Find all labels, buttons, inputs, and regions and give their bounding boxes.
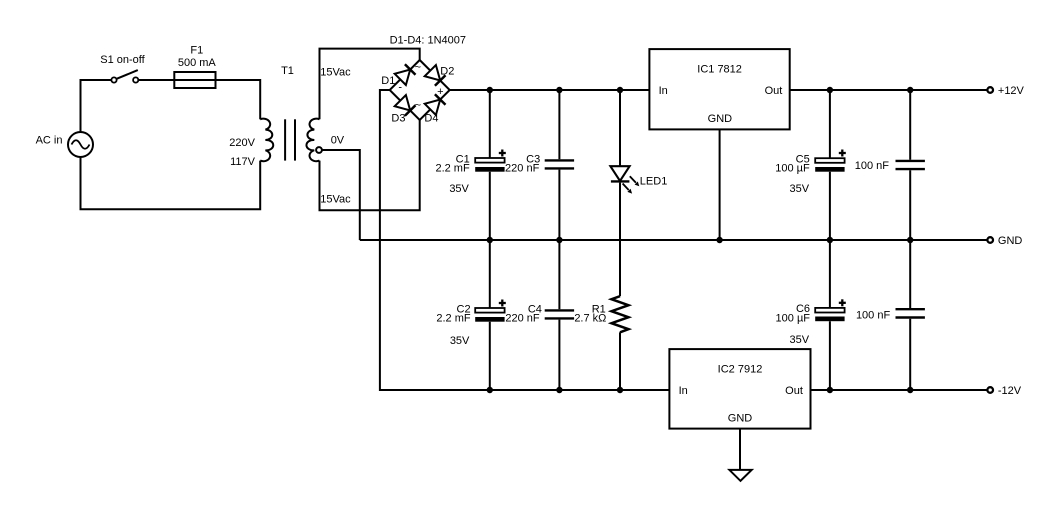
svg-text:220 nF: 220 nF — [505, 163, 540, 175]
capacitor C4 — [545, 309, 574, 311]
wire C5 bottom — [829, 172, 831, 240]
svg-text:D4: D4 — [424, 113, 438, 125]
svg-text:Out: Out — [785, 385, 803, 397]
wire switch to fuse — [138, 79, 176, 81]
terminal GND — [987, 237, 993, 243]
svg-text:Out: Out — [765, 85, 783, 97]
svg-text:F1: F1 — [190, 45, 203, 57]
wire LED to R1 crossing GND — [619, 183, 621, 297]
diode D3 — [395, 95, 411, 111]
wire AC top to switch — [80, 80, 82, 132]
node 100nF top + rail — [907, 87, 913, 93]
wire C4 bottom — [558, 320, 560, 390]
terminal -12V — [987, 387, 993, 393]
svg-text:2.2 mF: 2.2 mF — [436, 313, 471, 325]
bridge diamond wires — [390, 60, 450, 120]
capacitor 100nF bottom — [896, 308, 925, 310]
wire center tap to GND rail — [322, 150, 360, 240]
svg-text:220V: 220V — [229, 137, 255, 149]
wire bridge minus down to negative rail — [380, 90, 670, 390]
wire C3 top — [558, 90, 560, 159]
wire GND rail — [360, 239, 988, 241]
transformer T1 secondary winding — [306, 119, 319, 162]
wire IC1 out rail — [790, 89, 988, 91]
svg-text:~: ~ — [415, 100, 421, 112]
node C6 out rail — [827, 387, 833, 393]
node 100nF bottom out rail — [907, 387, 913, 393]
wire secondary bottom to bridge — [320, 120, 420, 210]
capacitor C2 — [475, 308, 504, 313]
svg-text:D1-D4: 1N4007: D1-D4: 1N4007 — [390, 35, 466, 47]
wire 100nF top cap lower — [909, 170, 911, 240]
wire C1 top — [489, 90, 491, 158]
wire C1 bottom — [489, 172, 491, 240]
fuse F1 — [174, 72, 215, 88]
svg-text:35V: 35V — [449, 183, 469, 195]
LED LED1 — [610, 166, 629, 181]
svg-text:-: - — [398, 82, 402, 94]
wire positive rail — [450, 89, 650, 91]
svg-text:T1: T1 — [281, 65, 294, 77]
svg-text:100 µF: 100 µF — [776, 312, 811, 324]
svg-text:15Vac: 15Vac — [320, 67, 351, 79]
wire IC2 GND pin — [739, 429, 741, 470]
node R1 neg rail — [617, 387, 623, 393]
switch S1 — [111, 77, 116, 82]
svg-text:100 nF: 100 nF — [855, 160, 890, 172]
svg-text:35V: 35V — [790, 334, 810, 346]
svg-text:100 µF: 100 µF — [775, 163, 810, 175]
terminal +12V — [987, 87, 993, 93]
wire C5 top — [829, 90, 831, 158]
node C5 GND rail — [827, 237, 833, 243]
svg-text:15Vac: 15Vac — [320, 193, 351, 205]
regulator IC2 7912 — [669, 349, 810, 429]
svg-text:~: ~ — [415, 62, 421, 74]
wire secondary top to bridge — [320, 49, 420, 120]
wire 100nF top cap upper — [909, 90, 911, 160]
center tap terminal — [316, 147, 322, 153]
node C1 + rail — [487, 87, 493, 93]
capacitor C1 — [475, 158, 504, 163]
svg-text:D3: D3 — [391, 113, 405, 125]
capacitor C3 — [545, 159, 574, 161]
wire fuse to T1 primary — [259, 79, 261, 119]
svg-text:S1 on-off: S1 on-off — [100, 54, 145, 66]
svg-text:+12V: +12V — [998, 85, 1025, 97]
svg-text:GND: GND — [708, 113, 733, 125]
wire C4 top — [558, 240, 560, 309]
regulator IC1 7812 — [649, 49, 789, 129]
svg-text:220 nF: 220 nF — [505, 313, 540, 325]
diode D4 — [425, 100, 441, 116]
node C1 GND rail — [487, 237, 493, 243]
AC source V1 — [68, 132, 93, 157]
node 100nF top GND rail — [907, 237, 913, 243]
resistor R1 — [612, 296, 629, 332]
wire R1 bottom — [619, 332, 621, 390]
svg-text:35V: 35V — [790, 183, 810, 195]
node C5 + rail — [827, 87, 833, 93]
capacitor C6 — [815, 308, 844, 313]
svg-text:+: + — [437, 86, 443, 98]
svg-text:AC in: AC in — [36, 135, 63, 147]
node IC1 GND rail — [716, 237, 722, 243]
diode D1 — [395, 70, 411, 86]
wire C3 bottom — [558, 170, 560, 240]
svg-text:-12V: -12V — [998, 385, 1022, 397]
ground symbol — [729, 470, 751, 481]
svg-text:D2: D2 — [440, 66, 454, 78]
transformer T1 core — [284, 119, 286, 160]
wire 100nF bottom cap upper — [909, 240, 911, 308]
node LED + rail — [617, 87, 623, 93]
svg-text:GND: GND — [728, 413, 753, 425]
svg-text:IC1 7812: IC1 7812 — [697, 64, 742, 76]
svg-text:2.7 kΩ: 2.7 kΩ — [574, 313, 606, 325]
svg-text:100 nF: 100 nF — [856, 310, 891, 322]
svg-text:LED1: LED1 — [640, 175, 668, 187]
diode D2 — [425, 65, 441, 81]
wire C2 bottom — [489, 322, 491, 390]
svg-text:In: In — [679, 385, 688, 397]
svg-text:500 mA: 500 mA — [178, 57, 217, 69]
wire 100nF bottom cap lower — [909, 319, 911, 390]
svg-text:0V: 0V — [331, 135, 345, 147]
wire IC1 GND pin — [719, 129, 721, 240]
svg-text:35V: 35V — [450, 335, 470, 347]
wire C6 bottom — [829, 321, 831, 390]
node C2 neg rail — [487, 387, 493, 393]
wire LED top — [619, 90, 621, 166]
svg-text:IC2 7912: IC2 7912 — [718, 364, 763, 376]
svg-text:117V: 117V — [230, 156, 256, 168]
svg-text:2.2 mF: 2.2 mF — [435, 163, 470, 175]
node C3 + rail — [556, 87, 562, 93]
wire C6 top — [829, 240, 831, 308]
wire primary bottom — [81, 157, 261, 209]
svg-text:D1: D1 — [381, 75, 395, 87]
node C3 GND rail — [556, 237, 562, 243]
svg-text:GND: GND — [998, 235, 1023, 247]
transformer T1 primary winding — [260, 119, 273, 162]
capacitor C5 — [815, 158, 844, 163]
svg-text:In: In — [659, 85, 668, 97]
wire C2 top — [489, 240, 491, 308]
node C4 neg rail — [556, 387, 562, 393]
capacitor 100nF top — [896, 160, 925, 162]
wire IC2 out rail — [811, 389, 988, 391]
